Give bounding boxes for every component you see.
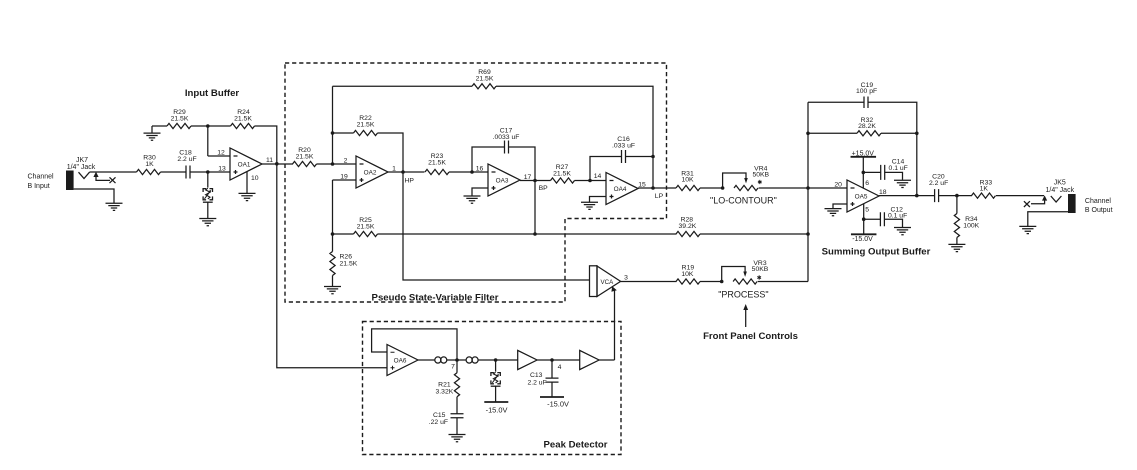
op-amp OA4 bbox=[606, 173, 638, 205]
capacitor C19 100 pF (OA5 feedback) bbox=[808, 82, 917, 196]
svg-text:-15.0V: -15.0V bbox=[852, 236, 873, 243]
svg-text:2.2 uF: 2.2 uF bbox=[527, 379, 546, 386]
svg-text:1K: 1K bbox=[980, 185, 989, 192]
junction trimmer node bbox=[494, 358, 498, 362]
resistor R28 39.2K bbox=[535, 217, 808, 237]
annotation arrow to PROCESS bbox=[743, 304, 748, 327]
svg-text:JK5: JK5 bbox=[1054, 180, 1066, 187]
svg-text:15: 15 bbox=[638, 181, 646, 188]
junction R25 left node bbox=[331, 232, 335, 236]
svg-text:3.32K: 3.32K bbox=[436, 389, 454, 396]
wire feedback vertical to pin 12 bbox=[207, 126, 209, 156]
wire C20 to R33 bbox=[939, 195, 972, 197]
ground (OA4 +input) bbox=[581, 202, 598, 209]
VCA control port arrow from peak detector bbox=[611, 286, 616, 360]
wire OA5 +input to ground bbox=[833, 204, 847, 208]
svg-text:OA5: OA5 bbox=[855, 194, 868, 201]
wire buffer2 output up to VCA control bbox=[599, 359, 614, 361]
svg-text:1K: 1K bbox=[145, 161, 154, 168]
svg-text:3: 3 bbox=[624, 275, 628, 282]
label: Channel B Input bbox=[28, 173, 55, 190]
svg-text:HP: HP bbox=[405, 177, 415, 184]
ground (jack JK5 sleeve) bbox=[1019, 212, 1068, 234]
wire summing vertical (feedback + R28 + VR3 rows) bbox=[807, 102, 809, 281]
svg-text:21.5K: 21.5K bbox=[476, 76, 494, 83]
svg-text:21.5K: 21.5K bbox=[234, 115, 252, 122]
svg-text:OA4: OA4 bbox=[614, 186, 627, 193]
VCA amplifier bbox=[590, 266, 621, 297]
resistor R32 28.2K (OA5 feedback) bbox=[808, 117, 917, 136]
junction C12 tap bbox=[862, 217, 866, 221]
svg-text:OA6: OA6 bbox=[394, 357, 407, 364]
power -15.0V (C13) bbox=[540, 397, 569, 409]
resistor R23 21.5K bbox=[425, 153, 449, 175]
svg-text:6: 6 bbox=[865, 180, 869, 187]
svg-text:1/4" Jack: 1/4" Jack bbox=[1046, 187, 1075, 194]
svg-text:1/4" Jack: 1/4" Jack bbox=[67, 164, 96, 171]
svg-text:16: 16 bbox=[476, 165, 484, 172]
resistor R27 21.5K bbox=[551, 164, 575, 183]
svg-text:Summing Output Buffer: Summing Output Buffer bbox=[822, 247, 931, 258]
svg-text:"LO-CONTOUR": "LO-CONTOUR" bbox=[710, 195, 777, 205]
op-amp OA5 bbox=[847, 180, 879, 212]
label PROCESS bbox=[718, 290, 768, 300]
jack JK7 switch contact bbox=[93, 172, 115, 183]
wire tap from OA1 output down to peak detector OA6 +input bbox=[277, 164, 387, 368]
svg-text:21.5K: 21.5K bbox=[171, 115, 189, 122]
wire OA4 output pin 15 to R31 bbox=[638, 181, 676, 188]
svg-text:.033 uF: .033 uF bbox=[612, 143, 635, 150]
resistor R69 21.5K (outer feedback) bbox=[333, 69, 654, 157]
junction C16/R69 node bbox=[651, 155, 655, 159]
svg-text:10K: 10K bbox=[681, 271, 694, 278]
wire VR3 to summing vertical bbox=[758, 281, 808, 283]
svg-text:.22 uF: .22 uF bbox=[429, 419, 448, 426]
wire to trimmer node bbox=[478, 359, 518, 361]
junction R32 left bbox=[806, 132, 810, 136]
capacitor C18 2.2 uF bbox=[177, 149, 196, 178]
svg-text:4: 4 bbox=[558, 364, 562, 371]
svg-text:Front Panel Controls: Front Panel Controls bbox=[703, 331, 798, 342]
resistor R31 10K bbox=[676, 170, 700, 190]
junction node 7 bbox=[451, 358, 459, 370]
junction node 4 bbox=[550, 358, 561, 371]
capacitor C17 .0033 uF (OA3 feedback) bbox=[472, 127, 535, 180]
svg-text:-15.0V: -15.0V bbox=[486, 406, 508, 415]
junction at R29/R24 node bbox=[206, 124, 210, 128]
wire BP node down to R25/R28 row bbox=[534, 181, 536, 235]
svg-text:2: 2 bbox=[344, 157, 348, 164]
junction OA3 -input node bbox=[470, 170, 474, 174]
wire OA4 +input to ground bbox=[590, 197, 607, 203]
capacitor C20 2.2 uF bbox=[929, 174, 948, 203]
junction at C18/trimmer node bbox=[206, 170, 210, 174]
power -15.0V (peak trimmer) bbox=[484, 402, 508, 415]
wire OA3 +input to ground bbox=[472, 188, 488, 196]
ground (input trimmer) bbox=[199, 219, 216, 226]
resistor R34 100K to ground bbox=[954, 196, 979, 245]
svg-text:OA3: OA3 bbox=[496, 178, 509, 185]
resistor R19 10K bbox=[676, 265, 700, 285]
svg-text:Peak Detector: Peak Detector bbox=[544, 439, 608, 450]
svg-text:OA2: OA2 bbox=[364, 170, 377, 177]
junction VR3 left terminal bbox=[720, 280, 724, 284]
potentiometer VR4 50KB (LO-CONTOUR) bbox=[723, 165, 770, 190]
svg-text:11: 11 bbox=[266, 157, 273, 164]
junction VR4 left terminal bbox=[721, 186, 725, 190]
op-amp OA6 bbox=[387, 345, 418, 376]
svg-text:C13: C13 bbox=[530, 372, 543, 379]
capacitor C12 0.1 uF bbox=[864, 206, 908, 227]
wire R20 to OA2 -input pin 2 bbox=[317, 157, 357, 164]
ground (C12) bbox=[894, 228, 911, 235]
wire R24 to OA1 output node bbox=[255, 126, 277, 164]
capacitor C16 .033 uF (OA4 feedback) bbox=[590, 136, 653, 181]
svg-text:50KB: 50KB bbox=[752, 172, 769, 179]
label: Channel B Output bbox=[1085, 198, 1113, 214]
wire OA1 pin 10 to ground bbox=[247, 172, 259, 194]
svg-text:1: 1 bbox=[392, 165, 396, 172]
buffer amplifier (first) bbox=[518, 350, 537, 369]
svg-text:R21: R21 bbox=[438, 381, 451, 388]
wire buffer1 to buffer2 bbox=[537, 359, 580, 361]
svg-text:2.2 uF: 2.2 uF bbox=[177, 156, 196, 163]
wire R31 to VR4 bbox=[700, 187, 723, 189]
ground (OA5 +input) bbox=[825, 209, 842, 216]
svg-text:21.5K: 21.5K bbox=[357, 224, 375, 231]
junction feedback at output bbox=[915, 194, 919, 198]
wire OA2 +input pin 19 bbox=[333, 173, 357, 180]
wire OA2+ down to R25 row bbox=[332, 180, 334, 234]
svg-text:C15: C15 bbox=[433, 412, 446, 419]
svg-text:100 pF: 100 pF bbox=[856, 88, 877, 95]
junction BP row node bbox=[533, 232, 537, 236]
resistor R25 21.5K bbox=[333, 217, 536, 237]
trimmer/photocell element in peak detector bbox=[491, 360, 501, 402]
junction OA2 -input node bbox=[331, 162, 335, 166]
svg-text:21.5K: 21.5K bbox=[340, 260, 358, 267]
junction BP node bbox=[533, 179, 548, 192]
ground (OA3 +input) bbox=[464, 196, 481, 203]
wire OA2 output pin 1 to HP node bbox=[388, 165, 425, 172]
wire R23 to OA3 -input pin 16 bbox=[449, 165, 488, 172]
wire R30 to C18 bbox=[161, 171, 187, 173]
junction OA4 -input node bbox=[588, 179, 592, 183]
svg-text:20: 20 bbox=[834, 181, 842, 188]
svg-text:0.1 uF: 0.1 uF bbox=[889, 165, 908, 172]
junction at R22 row bbox=[331, 131, 335, 135]
wire OA1 -input pin 12 bbox=[208, 149, 230, 156]
jack JK5 switch contact bbox=[1024, 195, 1047, 207]
resistor R30 1K bbox=[137, 154, 161, 174]
resistor R21 3.32K bbox=[436, 360, 460, 414]
svg-text:2.2 uF: 2.2 uF bbox=[929, 180, 948, 187]
wire C18 to OA1 +input (pin 13) bbox=[190, 165, 230, 172]
section title: Summing Output Buffer bbox=[822, 247, 931, 258]
svg-text:100K: 100K bbox=[963, 222, 979, 229]
section title: Input Buffer bbox=[185, 88, 240, 99]
ground (C14) bbox=[894, 180, 911, 187]
wire R33 to JK5 bbox=[996, 195, 1044, 197]
svg-text:.0033 uF: .0033 uF bbox=[493, 134, 520, 141]
connector JK5 1/4inch jack bbox=[1046, 180, 1076, 213]
svg-text:10K: 10K bbox=[681, 176, 694, 183]
wire OA6 output to diode pair bbox=[418, 359, 435, 361]
resistor R20 21.5K bbox=[293, 147, 317, 166]
svg-text:21.5K: 21.5K bbox=[357, 122, 375, 129]
junction R34 node bbox=[955, 194, 959, 198]
svg-text:12: 12 bbox=[217, 149, 225, 156]
op-amp OA3 bbox=[488, 164, 520, 196]
resistor R29 21.5K bbox=[167, 109, 191, 129]
wire OA1 output pin 11 bbox=[262, 157, 293, 164]
diode pair D (first) bbox=[435, 357, 447, 363]
wire OA5 output pin 18 bbox=[879, 189, 935, 196]
svg-text:B Input: B Input bbox=[28, 183, 50, 190]
svg-text:50KB: 50KB bbox=[752, 266, 769, 273]
resistor R22 21.5K (inner feedback) bbox=[333, 115, 404, 172]
power +15.0V to OA5 pin 6 bbox=[851, 150, 877, 188]
ground (OA1 pin 10) bbox=[239, 193, 256, 200]
connector JK7 1/4inch jack bbox=[66, 157, 96, 190]
ground (R34) bbox=[948, 244, 965, 251]
svg-text:19: 19 bbox=[340, 173, 348, 180]
capacitor C15 .22 uF bbox=[429, 412, 464, 435]
svg-text:R26: R26 bbox=[340, 253, 353, 260]
svg-text:Channel: Channel bbox=[1085, 198, 1112, 205]
svg-text:VCA: VCA bbox=[601, 279, 615, 286]
resistor R26 21.5K to ground bbox=[330, 234, 358, 286]
wire R27 to OA4 -input pin 14 bbox=[575, 173, 607, 181]
svg-text:OA1: OA1 bbox=[238, 162, 251, 169]
svg-text:Input Buffer: Input Buffer bbox=[185, 88, 240, 99]
ground (R26) bbox=[324, 287, 341, 294]
label LO-CONTOUR bbox=[710, 195, 777, 205]
dashed box: Pseudo State-Variable Filter bbox=[285, 63, 667, 304]
junction HP node bbox=[401, 170, 414, 184]
wire to node 7 bbox=[447, 359, 466, 361]
svg-text:21.5K: 21.5K bbox=[296, 154, 314, 161]
wire R69 vertical down to LP node bbox=[652, 157, 654, 189]
svg-text:JK7: JK7 bbox=[76, 157, 88, 164]
svg-text:39.2K: 39.2K bbox=[679, 223, 697, 230]
junction R28 row at summing vertical bbox=[806, 232, 810, 236]
capacitor C13 2.2 uF bbox=[527, 360, 558, 397]
svg-text:18: 18 bbox=[879, 189, 887, 196]
trimmer/photocell element at input bbox=[203, 172, 213, 218]
ground (jack JK7 sleeve) bbox=[74, 189, 123, 210]
junction C14 tap bbox=[862, 171, 866, 175]
potentiometer VR3 50KB (PROCESS) bbox=[722, 260, 769, 284]
power -15.0V to OA5 pin 5 bbox=[851, 204, 877, 243]
svg-text:21.5K: 21.5K bbox=[553, 170, 571, 177]
svg-text:5: 5 bbox=[865, 207, 869, 214]
diode pair D (second) bbox=[466, 357, 478, 363]
svg-text:10: 10 bbox=[251, 175, 259, 182]
svg-text:BP: BP bbox=[539, 185, 549, 192]
resistor R33 1K bbox=[972, 179, 996, 198]
svg-text:21.5K: 21.5K bbox=[428, 160, 446, 167]
svg-text:28.2K: 28.2K bbox=[858, 123, 876, 130]
dashed box: Peak Detector bbox=[363, 322, 622, 455]
wire OA2- node up through R22 row to R69 row bbox=[332, 86, 334, 164]
junction at OA1 output bbox=[275, 162, 279, 166]
svg-text:7: 7 bbox=[451, 364, 455, 371]
svg-text:14: 14 bbox=[594, 173, 602, 180]
svg-text:LP: LP bbox=[655, 193, 664, 200]
buffer amplifier (second) bbox=[580, 350, 599, 369]
wire R29 to R24 bbox=[191, 125, 231, 127]
ground (C15) bbox=[449, 435, 466, 442]
svg-text:-15.0V: -15.0V bbox=[547, 400, 569, 409]
junction R32 right bbox=[915, 132, 919, 136]
svg-text:13: 13 bbox=[218, 165, 226, 172]
wire jack tip to R30 bbox=[90, 171, 137, 173]
wire VR4 to summing node bbox=[759, 181, 847, 188]
capacitor C14 0.1 uF bbox=[863, 159, 908, 180]
svg-text:Channel: Channel bbox=[28, 173, 55, 180]
junction summing node bbox=[806, 186, 810, 190]
wire ground to R29 bbox=[152, 125, 167, 127]
wire R19 to VR3 bbox=[700, 281, 722, 283]
junction LP node bbox=[651, 186, 663, 200]
op-amp OA1 bbox=[230, 148, 262, 180]
wire OA3 output pin 17 to BP node bbox=[520, 174, 551, 181]
svg-text:B Output: B Output bbox=[1085, 207, 1113, 214]
svg-text:17: 17 bbox=[524, 174, 532, 181]
wire OA6 feedback loop bbox=[372, 329, 457, 360]
op-amp OA2 bbox=[356, 156, 388, 188]
svg-text:0.1 uF: 0.1 uF bbox=[888, 213, 907, 220]
wire HP node down to VCA input bbox=[403, 172, 590, 280]
svg-text:Pseudo State-Variable Filter: Pseudo State-Variable Filter bbox=[372, 293, 499, 304]
ground (R29 left) bbox=[144, 126, 161, 140]
svg-text:"PROCESS": "PROCESS" bbox=[718, 290, 768, 300]
resistor R24 21.5K bbox=[231, 109, 255, 129]
label: Front Panel Controls bbox=[703, 331, 798, 342]
wire VCA output pin 3 to R19 bbox=[621, 275, 677, 282]
